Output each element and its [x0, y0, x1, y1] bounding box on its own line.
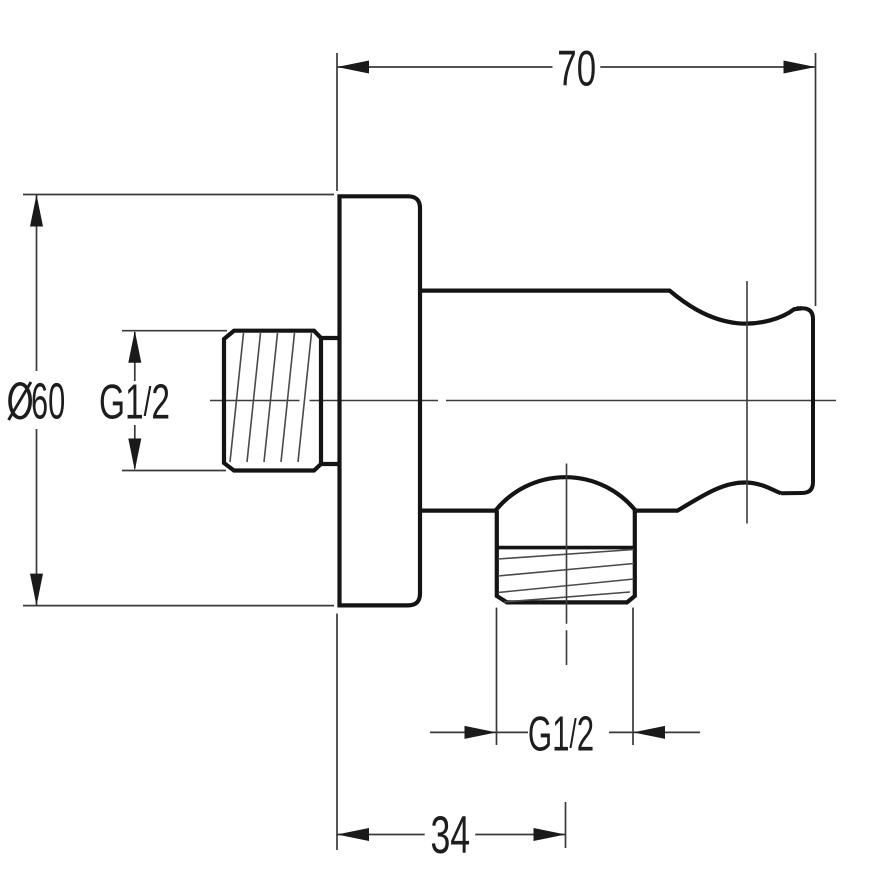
threaded inlet nipple: thread hatch lines — [230, 333, 312, 462]
body: right end cap — [781, 308, 813, 493]
dimension G1/2 (outlet): dimension line with outside arrows — [430, 726, 700, 739]
dimension 34: value label — [430, 805, 470, 865]
vertical centerline of holder — [746, 281, 748, 524]
threaded inlet nipple outline — [224, 331, 321, 471]
svg-text:G1/2: G1/2 — [99, 374, 170, 429]
vertical centerline of outlet axis — [566, 464, 568, 666]
horizontal centerline of inlet axis — [210, 400, 836, 402]
dimension Ø60: dimension line with arrows — [30, 195, 43, 606]
dimension G1/2 (inlet): value label — [99, 374, 170, 429]
dimension 34: right extension line — [565, 802, 567, 848]
outlet dome — [496, 477, 636, 510]
body: top edge and holder top wave profile — [420, 291, 802, 324]
body: bottom edge left of outlet — [420, 509, 496, 513]
dimension 70: right extension line — [815, 53, 817, 306]
dimension G1/2 (inlet): top extension line — [122, 330, 227, 332]
outlet thread collar line — [497, 546, 635, 550]
dimension 70: dimension line with arrows — [337, 61, 816, 74]
inlet nipple neck (collar to wall plate) — [321, 338, 340, 464]
svg-text:34: 34 — [430, 805, 470, 865]
dimension Ø60: value label — [9, 372, 66, 429]
dimension Ø60: top extension line — [23, 194, 334, 196]
dimension G1/2 (inlet): dimension line with arrows — [128, 331, 141, 471]
body: holder bottom wave profile — [636, 482, 781, 510]
wall plate (escutcheon) — [340, 196, 421, 605]
dimension Ø60: bottom extension line — [23, 605, 334, 607]
dimension G1/2 (outlet): value label — [528, 706, 594, 761]
dimension 34: dimension line with arrows — [337, 828, 566, 841]
dimension 70: value label — [557, 41, 596, 97]
dimension G1/2 (outlet): right extension line — [632, 608, 634, 745]
outlet thread hatch lines — [498, 550, 634, 603]
dimension G1/2 (outlet): left extension line — [496, 608, 498, 745]
svg-text:60: 60 — [31, 372, 65, 429]
dimension G1/2 (inlet): bottom extension line — [122, 470, 226, 472]
outlet cylinder with chamfered bottom — [497, 511, 635, 603]
dimension 34: left extension line — [336, 614, 338, 851]
svg-text:70: 70 — [557, 41, 596, 97]
svg-text:G1/2: G1/2 — [528, 706, 594, 761]
dimension 70: left extension line — [336, 53, 338, 191]
